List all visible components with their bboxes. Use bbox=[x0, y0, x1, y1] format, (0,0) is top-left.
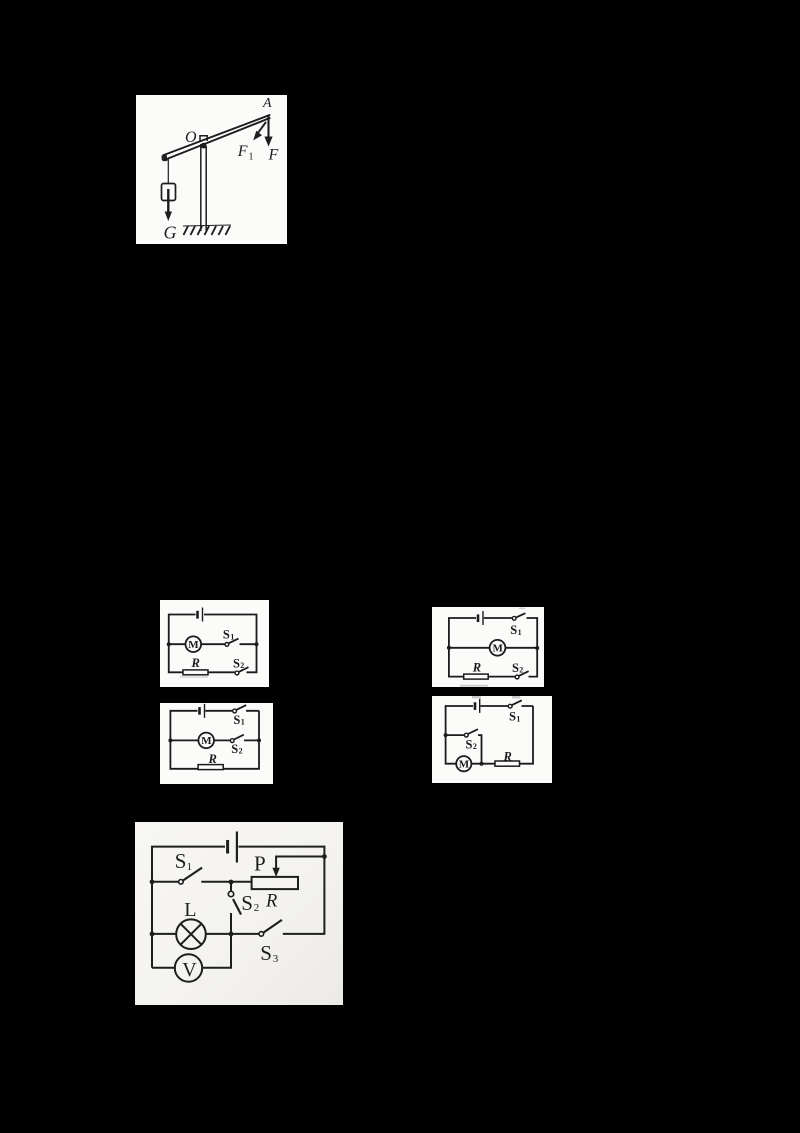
svg-text:S: S bbox=[231, 742, 238, 756]
svg-text:R: R bbox=[208, 752, 217, 766]
PANEL: lever diagram bbox=[136, 95, 287, 244]
svg-text:S: S bbox=[233, 656, 240, 670]
svg-text:2: 2 bbox=[473, 742, 477, 751]
hanging block bbox=[162, 184, 176, 201]
wire: top + left + right outer loop bbox=[152, 847, 324, 968]
motor M bbox=[186, 636, 202, 652]
svg-text:M: M bbox=[493, 643, 504, 655]
battery cell bbox=[198, 707, 201, 715]
wire: outer loop circuit C bbox=[170, 711, 259, 769]
svg-text:F: F bbox=[237, 143, 248, 160]
svg-text:M: M bbox=[201, 735, 212, 747]
wire: voltmeter branch bbox=[152, 934, 231, 968]
svg-text:1: 1 bbox=[516, 714, 520, 723]
faint scan smudges top bbox=[472, 696, 481, 699]
svg-text:S: S bbox=[175, 849, 187, 873]
switch S2 (middle branch) bbox=[230, 739, 234, 743]
lamp L bbox=[176, 919, 206, 949]
weight G arrow bbox=[165, 189, 172, 221]
svg-text:M: M bbox=[188, 639, 199, 651]
PANEL: circuit B bbox=[432, 607, 544, 687]
junction dots bbox=[444, 733, 448, 737]
wire: wiper P feed bbox=[276, 857, 324, 870]
svg-text:G: G bbox=[164, 223, 177, 243]
svg-text:S: S bbox=[466, 738, 473, 752]
wire: middle motor branch bbox=[170, 739, 259, 741]
junction dots bbox=[168, 738, 172, 742]
switch S1 (open, middle branch) bbox=[225, 643, 229, 647]
resistor R bbox=[464, 674, 489, 679]
resistor R bbox=[495, 761, 520, 766]
voltmeter V bbox=[175, 954, 202, 981]
node: P junction dot on right wire bbox=[322, 854, 327, 859]
svg-text:F: F bbox=[268, 146, 279, 163]
svg-text:S: S bbox=[233, 713, 240, 727]
svg-text:S: S bbox=[509, 710, 516, 724]
resistor R bbox=[198, 765, 223, 770]
svg-text:1: 1 bbox=[518, 628, 522, 637]
PANEL: circuit D bbox=[432, 696, 552, 783]
pivot dot bbox=[201, 143, 207, 149]
svg-text:1: 1 bbox=[187, 861, 193, 873]
svg-text:2: 2 bbox=[519, 665, 523, 674]
svg-text:S: S bbox=[260, 941, 272, 965]
switch S1 (top wire) bbox=[508, 704, 512, 708]
string from beam left end bbox=[167, 159, 169, 183]
motor M bbox=[198, 733, 214, 749]
motor M (bottom wire) bbox=[456, 756, 471, 771]
svg-text:L: L bbox=[184, 899, 196, 921]
switch S1 bbox=[179, 880, 184, 885]
scan smudges bbox=[460, 685, 488, 687]
resistor R bbox=[183, 670, 208, 675]
battery cell bbox=[474, 702, 477, 710]
node: S2 top junction dot bbox=[229, 880, 234, 885]
wire: top to S1 bbox=[481, 705, 509, 707]
node: lamp branch middle dot bbox=[229, 932, 234, 937]
beam left end cap bbox=[165, 155, 166, 161]
switch S2 (bottom branch) bbox=[515, 675, 519, 679]
svg-text:R: R bbox=[503, 750, 512, 764]
svg-text:1: 1 bbox=[249, 152, 254, 163]
svg-text:1: 1 bbox=[241, 718, 245, 727]
wire: middle motor branch bbox=[169, 643, 257, 645]
switch S1 (top wire) bbox=[512, 616, 516, 620]
switch S2 (vertical, open) bbox=[230, 882, 232, 891]
svg-text:2: 2 bbox=[254, 902, 259, 914]
svg-text:S: S bbox=[510, 623, 517, 637]
wire: middle motor branch bbox=[449, 647, 537, 649]
junction dots bbox=[167, 642, 171, 646]
svg-text:A: A bbox=[262, 96, 272, 111]
PANEL: circuit A bbox=[160, 600, 269, 687]
wire: S1 branch bbox=[152, 881, 252, 883]
svg-text:R: R bbox=[191, 656, 200, 670]
force F1 arrow (diagonal at A) bbox=[253, 122, 266, 140]
wire: outer loop circuit A bbox=[169, 615, 257, 673]
scan smudge bottom bbox=[180, 676, 208, 678]
svg-text:S: S bbox=[512, 661, 519, 675]
svg-text:M: M bbox=[459, 758, 470, 770]
pivot O support bracket bbox=[200, 136, 207, 142]
wire: outer loop circuit B bbox=[449, 618, 537, 677]
svg-text:R: R bbox=[265, 892, 277, 912]
battery cell bbox=[196, 611, 199, 619]
wire: lamp branch bbox=[152, 933, 324, 935]
wire: outer loop circuit D bbox=[446, 706, 533, 764]
wiper arrowhead bbox=[272, 868, 279, 877]
node: lamp branch left dot bbox=[150, 932, 155, 937]
force F arrow (down at A) bbox=[264, 117, 272, 147]
node: left S1 junction bbox=[150, 879, 155, 884]
battery cell bbox=[477, 614, 480, 622]
svg-text:2: 2 bbox=[240, 661, 244, 670]
svg-text:V: V bbox=[182, 959, 197, 981]
svg-text:S: S bbox=[241, 891, 253, 915]
svg-text:S: S bbox=[223, 628, 230, 642]
PANEL: big circuit bbox=[135, 822, 343, 1005]
svg-text:1: 1 bbox=[230, 632, 234, 641]
wire: middle S2 branch bbox=[446, 735, 482, 764]
junction dots bbox=[447, 646, 451, 650]
PANEL: circuit C bbox=[160, 703, 273, 784]
beam (lever bar from left end to point A) bbox=[163, 115, 271, 161]
post (two vertical lines down to ground) bbox=[200, 144, 202, 231]
svg-text:P: P bbox=[254, 851, 266, 875]
ground hatching bbox=[183, 225, 231, 235]
switch S2 bbox=[464, 733, 468, 737]
battery cell bbox=[226, 840, 229, 854]
switch S1 (top wire) bbox=[233, 709, 237, 713]
switch S2 (bottom branch) bbox=[235, 671, 239, 675]
wire: top to S1 bbox=[484, 617, 513, 619]
svg-text:3: 3 bbox=[273, 953, 279, 965]
rheostat R body bbox=[252, 877, 298, 889]
motor M bbox=[490, 640, 506, 656]
switch S3 bbox=[259, 932, 264, 937]
svg-text:R: R bbox=[472, 660, 481, 674]
wire: top to S1 bbox=[205, 710, 232, 712]
svg-text:2: 2 bbox=[239, 746, 243, 755]
svg-text:O: O bbox=[185, 129, 197, 146]
